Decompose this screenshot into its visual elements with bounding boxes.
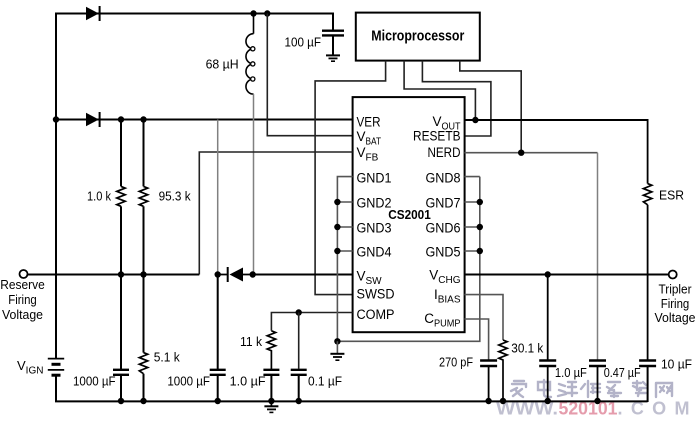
svg-text:Voltage: Voltage bbox=[2, 307, 43, 322]
svg-text:ESR: ESR bbox=[659, 188, 684, 203]
svg-text:1.0 µF: 1.0 µF bbox=[230, 374, 266, 389]
node rail junction 11k-1.0uF bbox=[268, 398, 274, 404]
node VER-95.3k junction bbox=[140, 116, 146, 122]
wire VBAT vertical bbox=[267, 14, 352, 136]
resistor R2 95.3k chain bbox=[139, 120, 147, 275]
wire 0.1uF vertical bbox=[298, 313, 300, 369]
wire NERD line bbox=[464, 152, 597, 154]
wire GND joiner horizontal bbox=[337, 177, 479, 342]
svg-text:270 pF: 270 pF bbox=[439, 355, 473, 370]
microprocessor U2 box bbox=[356, 13, 480, 61]
node GND joiner junction bbox=[334, 338, 340, 344]
node rail junction 270pF bbox=[485, 398, 491, 404]
node GND5 junction bbox=[477, 248, 483, 254]
wire uP to SWSD bbox=[315, 61, 386, 295]
node GND4 junction bbox=[334, 248, 340, 254]
capacitor C5 270pF bbox=[480, 361, 497, 402]
wire NERD to 0.47uF bbox=[597, 153, 599, 360]
watermark row1 CJK bbox=[511, 380, 672, 397]
wire ESR chain from VOUT bbox=[647, 119, 649, 184]
node top rail junction A (inductor) bbox=[250, 10, 256, 16]
svg-text:Firing: Firing bbox=[661, 296, 690, 311]
svg-text:1.0 µF: 1.0 µF bbox=[555, 365, 587, 380]
node VER-1.0k junction bbox=[118, 116, 124, 122]
wire ESR to 10uF bbox=[647, 205, 649, 360]
node rail junction 0.47uF bbox=[594, 398, 600, 404]
resistor R4 11k bbox=[267, 331, 275, 370]
terminal reserve firing voltage bbox=[20, 270, 28, 278]
wire VOUT line bbox=[464, 119, 647, 121]
node rail junction 1.0uF right bbox=[545, 398, 551, 404]
capacitor C3 1.0uF bottom bbox=[263, 370, 279, 401]
node VSW node junction bbox=[250, 271, 256, 277]
wire VER line bbox=[56, 119, 353, 121]
svg-text:NERD: NERD bbox=[428, 145, 461, 160]
wire left battery vertical bbox=[55, 13, 57, 359]
capacitor C4 0.1uF bbox=[291, 370, 307, 401]
node NERD junction bbox=[518, 150, 524, 156]
node reserve-95.3k junction bbox=[140, 271, 146, 277]
capacitor C7 0.47uF bbox=[589, 361, 606, 402]
capacitor C2 1000uF second bbox=[210, 370, 226, 401]
wire top rail bbox=[56, 13, 333, 15]
node VCHG-1.0uF junction bbox=[545, 271, 551, 277]
node top rail junction B (VBAT) bbox=[264, 10, 270, 16]
svg-text:10 µF: 10 µF bbox=[661, 357, 692, 372]
node reserve-1.0k junction bbox=[118, 271, 124, 277]
svg-text:0.47 µF: 0.47 µF bbox=[604, 365, 641, 380]
svg-text:95.3 k: 95.3 k bbox=[159, 189, 191, 204]
wire VCHG tripler line bbox=[464, 274, 668, 276]
diode D2 bbox=[86, 112, 100, 127]
wire VSW line bbox=[253, 274, 353, 276]
svg-text:SWSD: SWSD bbox=[357, 287, 395, 302]
resistor R3 5.1k chain bbox=[139, 275, 147, 402]
node D3 cathode junction bbox=[215, 271, 221, 277]
resistor R1 1.0k chain bbox=[117, 120, 125, 275]
node GND7 junction bbox=[477, 199, 483, 205]
node rail junction 30.1k bbox=[500, 398, 506, 404]
capacitor C1 1000uF first bbox=[113, 275, 129, 402]
ground under GND joiner bbox=[330, 341, 344, 360]
resistor R5 ESR bbox=[643, 184, 651, 205]
node GND3 junction bbox=[334, 224, 340, 230]
wire uP to VOUT bbox=[404, 61, 475, 120]
svg-text:GND8: GND8 bbox=[426, 171, 461, 186]
node rail junction 0.1uF bbox=[296, 398, 302, 404]
svg-text:RESETB: RESETB bbox=[413, 129, 461, 144]
diode D1 bbox=[86, 6, 100, 21]
svg-text:GND4: GND4 bbox=[357, 245, 392, 260]
svg-text:Tripler: Tripler bbox=[659, 282, 693, 297]
node rail junction 1000uF-2 bbox=[215, 398, 221, 404]
svg-text:5.1 k: 5.1 k bbox=[154, 350, 180, 365]
IC U1 CS2001 box bbox=[353, 97, 465, 332]
node rail junction 5.1k bbox=[140, 398, 146, 404]
node COMP junction bbox=[296, 309, 302, 315]
resistor R6 30.1k bbox=[499, 340, 507, 401]
node VOUT junction bbox=[472, 117, 478, 123]
svg-text:Microprocessor: Microprocessor bbox=[371, 29, 464, 45]
svg-text:Reserve: Reserve bbox=[0, 277, 45, 292]
wire left GND chain bbox=[337, 177, 352, 342]
battery VIGN bbox=[48, 359, 648, 402]
wire uP to NERD bbox=[460, 61, 521, 153]
capacitor C6 1.0uF right bbox=[539, 275, 556, 402]
svg-text:30.1 k: 30.1 k bbox=[511, 341, 543, 356]
wire 1000uF-2 vertical bbox=[217, 275, 219, 370]
node rail junction 1000uF-1 bbox=[118, 398, 124, 404]
wire CPUMP net bbox=[464, 319, 488, 360]
svg-text:CS2001: CS2001 bbox=[388, 207, 431, 222]
svg-text:11 k: 11 k bbox=[240, 334, 262, 349]
capacitor C 100uF bbox=[322, 13, 344, 55]
svg-text:1000 µF: 1000 µF bbox=[167, 374, 210, 389]
svg-text:VER: VER bbox=[357, 114, 381, 129]
svg-text:100 µF: 100 µF bbox=[285, 35, 322, 50]
svg-text:Firing: Firing bbox=[8, 292, 37, 307]
diode D3 bbox=[218, 267, 253, 282]
node GND2 junction bbox=[334, 199, 340, 205]
ground under bottom rail bbox=[264, 401, 278, 412]
terminal tripler firing voltage bbox=[669, 271, 677, 279]
svg-text:GND7: GND7 bbox=[426, 196, 461, 211]
wire D3 cathode vertical bbox=[217, 120, 219, 275]
svg-text:Voltage: Voltage bbox=[655, 310, 695, 325]
wire inductor to VSW node bbox=[253, 94, 255, 274]
svg-text:1000 µF: 1000 µF bbox=[73, 374, 116, 389]
svg-text:GND1: GND1 bbox=[357, 171, 392, 186]
node VER-battery junction bbox=[53, 116, 59, 122]
wire uP to RESETB bbox=[422, 61, 491, 136]
wire reserve line bbox=[28, 274, 200, 276]
node GND6 junction bbox=[477, 224, 483, 230]
wire VFB net bbox=[199, 152, 352, 275]
svg-text:GND5: GND5 bbox=[426, 245, 461, 260]
svg-text:GND2: GND2 bbox=[357, 196, 392, 211]
svg-text:0.1 µF: 0.1 µF bbox=[308, 374, 342, 389]
svg-text:GND6: GND6 bbox=[426, 221, 461, 236]
svg-text:68 µH: 68 µH bbox=[206, 57, 239, 72]
inductor L1 68uH bbox=[246, 14, 255, 95]
ground under 100uF bbox=[326, 55, 340, 61]
wire COMP net bbox=[271, 313, 352, 331]
svg-text:1.0 k: 1.0 k bbox=[87, 189, 111, 204]
wire IBIAS net bbox=[464, 295, 503, 340]
wire right GND chain bbox=[464, 177, 479, 251]
svg-text:GND3: GND3 bbox=[357, 221, 392, 236]
capacitor C8 10uF bbox=[639, 361, 656, 403]
svg-text:COMP: COMP bbox=[357, 307, 395, 322]
